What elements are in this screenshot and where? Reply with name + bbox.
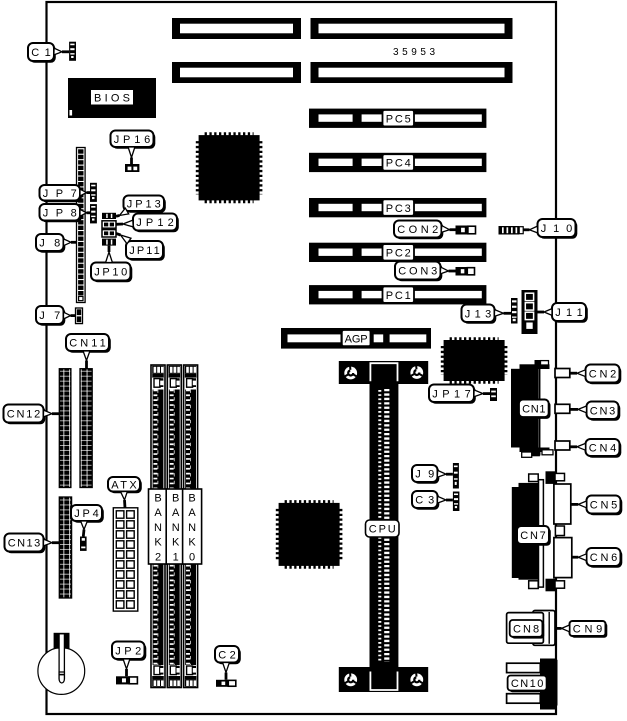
port CN6 component (554, 538, 572, 578)
jumper JP16 component (125, 164, 139, 172)
svg-text:ATX: ATX (111, 479, 137, 491)
port CN3 component (555, 404, 570, 413)
chip U1 (north bridge) (197, 134, 260, 202)
label BANK0 (183, 489, 202, 564)
svg-text:CN5: CN5 (590, 500, 618, 512)
label C1 (28, 43, 56, 63)
pointer JP16 (128, 147, 135, 164)
header J13 component (511, 298, 518, 324)
pointer JP7 (80, 189, 90, 196)
label CN12 (4, 405, 46, 425)
jumper CON2 component (456, 226, 476, 235)
capacitor C1 component (69, 42, 76, 61)
label JP16 (111, 131, 156, 149)
label JP8 (40, 204, 82, 222)
label JP10 (91, 263, 132, 283)
svg-text:AGP: AGP (345, 333, 368, 345)
svg-text:JP4: JP4 (74, 508, 99, 520)
svg-text:CN10: CN10 (511, 678, 544, 690)
svg-text:CN11: CN11 (69, 338, 106, 350)
pointer CN2 (570, 370, 586, 377)
label J7 (36, 306, 65, 326)
svg-text:CN3: CN3 (590, 405, 616, 417)
svg-text:CN13: CN13 (8, 538, 41, 550)
pointer JP2 (123, 659, 130, 676)
label J8 (36, 234, 65, 253)
svg-text:CN12: CN12 (7, 409, 41, 421)
svg-text:PC4: PC4 (386, 158, 411, 170)
spacer between CN5 and CN6 (555, 526, 564, 536)
pointer CN13 (43, 539, 59, 546)
header J10 component (499, 226, 524, 235)
svg-text:PC2: PC2 (386, 248, 411, 260)
svg-text:J10: J10 (541, 223, 573, 235)
label CPU (366, 520, 400, 537)
svg-text:JP7: JP7 (43, 188, 77, 200)
ATX power connector (113, 508, 138, 611)
header J9 component (453, 463, 459, 489)
svg-text:PC3: PC3 (386, 203, 411, 215)
svg-text:J13: J13 (465, 308, 492, 320)
header J8 component (77, 148, 86, 303)
pointer CN5 (571, 501, 587, 508)
connector CN7 body (512, 471, 565, 591)
jumper JP13 component (102, 213, 116, 219)
label CN11 (66, 334, 111, 353)
PCI slot PC3 (309, 198, 486, 217)
pointer JP12 (116, 220, 133, 227)
ISA slot 1 left segment (172, 18, 301, 39)
svg-text:JP8: JP8 (43, 207, 77, 219)
pointer J7 (64, 312, 76, 319)
label BIOS (91, 90, 133, 105)
pointer J9 (437, 470, 453, 477)
svg-text:CN9: CN9 (573, 624, 603, 636)
svg-text:C 3: C 3 (415, 495, 434, 507)
chip U2 (south chip) (277, 502, 340, 567)
AGP slot (281, 328, 431, 349)
label JP17 (429, 385, 476, 404)
ISA slot 2 right segment (311, 62, 513, 83)
label CN10 (508, 676, 549, 693)
svg-text:BIOS: BIOS (94, 93, 130, 105)
jumper C2 component (216, 680, 236, 687)
pointer CN6 (572, 554, 587, 561)
svg-text:CN2: CN2 (589, 369, 617, 381)
label PC1 (383, 287, 415, 303)
chip U3 (I/O chip) (442, 339, 505, 382)
jumper JP7 component (90, 183, 97, 202)
jumper JP2 component (116, 676, 137, 684)
DIMM slot BANK1 (167, 365, 181, 688)
pointer JP4 (81, 521, 88, 537)
label PC3 (383, 199, 415, 215)
pointer CN11 (83, 351, 90, 369)
svg-text:PC5: PC5 (386, 113, 411, 125)
label JP2 (112, 642, 146, 661)
label AGP (342, 330, 371, 346)
pointer CN9 (556, 625, 570, 632)
label J9 (412, 465, 439, 484)
pointer CN4 (570, 443, 586, 450)
label ATX (108, 477, 142, 493)
svg-text:C 2: C 2 (218, 649, 236, 661)
pointer C2 (223, 663, 230, 680)
pointer J8 (64, 239, 77, 246)
label CON2 (394, 221, 443, 240)
connector CN8 body (507, 611, 555, 646)
label CN8 (510, 620, 545, 639)
part number 35953 (393, 47, 435, 58)
port CN4 component (555, 441, 570, 450)
jumper JP17 component (490, 388, 497, 401)
PCI slot PC1 (309, 285, 486, 304)
svg-text:CN6: CN6 (590, 552, 618, 564)
jumper JP11 component (102, 230, 116, 237)
label C3 (412, 491, 439, 510)
label C2 (215, 646, 241, 664)
label CN6 (587, 548, 623, 568)
connector CN12 (59, 369, 71, 488)
label PC4 (383, 154, 415, 170)
ISA slot 2 left segment (172, 62, 301, 83)
PCI slot PC4 (309, 153, 486, 172)
pointer JP13 (116, 208, 129, 216)
label CN1 (519, 400, 551, 419)
label CN7 (517, 526, 551, 546)
pointer CN12 (43, 410, 59, 417)
DIMM slot BANK2 (151, 365, 165, 688)
jumper JP10 component (102, 239, 116, 246)
capacitor C3 component (453, 492, 460, 512)
pointer C3 (437, 496, 453, 503)
port CN2 component (555, 369, 570, 378)
jumper JP4 component (80, 537, 87, 551)
battery (38, 633, 85, 695)
BIOS chip (68, 78, 156, 118)
svg-text:CN8: CN8 (513, 624, 539, 636)
label J13 (462, 305, 497, 324)
pointer ATX (121, 491, 128, 508)
label CON3 (395, 262, 442, 282)
label CN5 (587, 496, 623, 516)
svg-text:CN4: CN4 (589, 443, 617, 455)
jumper CON3 component (456, 267, 475, 276)
svg-text:CN1: CN1 (522, 404, 545, 416)
header J7 component (76, 308, 83, 324)
label JP11 (126, 241, 165, 261)
label J10 (538, 219, 578, 239)
pointer JP10 (106, 246, 113, 263)
svg-text:CN7: CN7 (520, 530, 546, 542)
connector CN13 (59, 497, 71, 598)
ISA slot 1 right segment (311, 18, 513, 39)
label CN9 (570, 621, 608, 638)
pointer J13 (494, 310, 511, 317)
label PC2 (383, 244, 415, 260)
label PC5 (383, 110, 415, 126)
label JP4 (71, 505, 104, 523)
label JP7 (40, 185, 82, 202)
label CN4 (586, 439, 622, 458)
pointer J10 (523, 226, 537, 233)
svg-text:CPU: CPU (369, 524, 396, 536)
label JP12 (133, 214, 179, 233)
jumper JP8 component (90, 204, 97, 223)
CPU slot (339, 361, 428, 692)
pointer JP17 (474, 390, 490, 397)
pointer J11 (538, 309, 553, 316)
pointer JP11 (116, 233, 131, 243)
pointer JP8 (80, 209, 90, 216)
svg-text:C 1: C 1 (31, 47, 51, 59)
label CN3 (587, 402, 621, 421)
connector CN1 body (511, 360, 553, 457)
pointer CON3 (440, 267, 455, 274)
label BANK1 (166, 489, 185, 564)
pointer C1 (54, 48, 69, 55)
label CN2 (586, 365, 622, 385)
port CN5 component (554, 484, 571, 524)
svg-text:35953: 35953 (393, 47, 435, 58)
pointer CON2 (441, 226, 455, 233)
label J11 (552, 303, 588, 323)
label CN13 (5, 534, 46, 554)
connector CN10 body (507, 659, 558, 710)
label BANK2 (149, 489, 168, 564)
svg-text:J11: J11 (555, 307, 583, 319)
label JP13 (124, 196, 166, 213)
connector CN11 (80, 369, 92, 488)
svg-text:PC1: PC1 (386, 290, 411, 302)
PCI slot PC2 (309, 243, 486, 262)
pointer CN3 (570, 406, 587, 413)
DIMM slot BANK0 (184, 365, 198, 688)
jumper JP12 component (102, 221, 116, 228)
connector J11 component (522, 290, 538, 334)
svg-text:JP2: JP2 (115, 645, 141, 657)
PCI slot PC5 (309, 109, 486, 128)
